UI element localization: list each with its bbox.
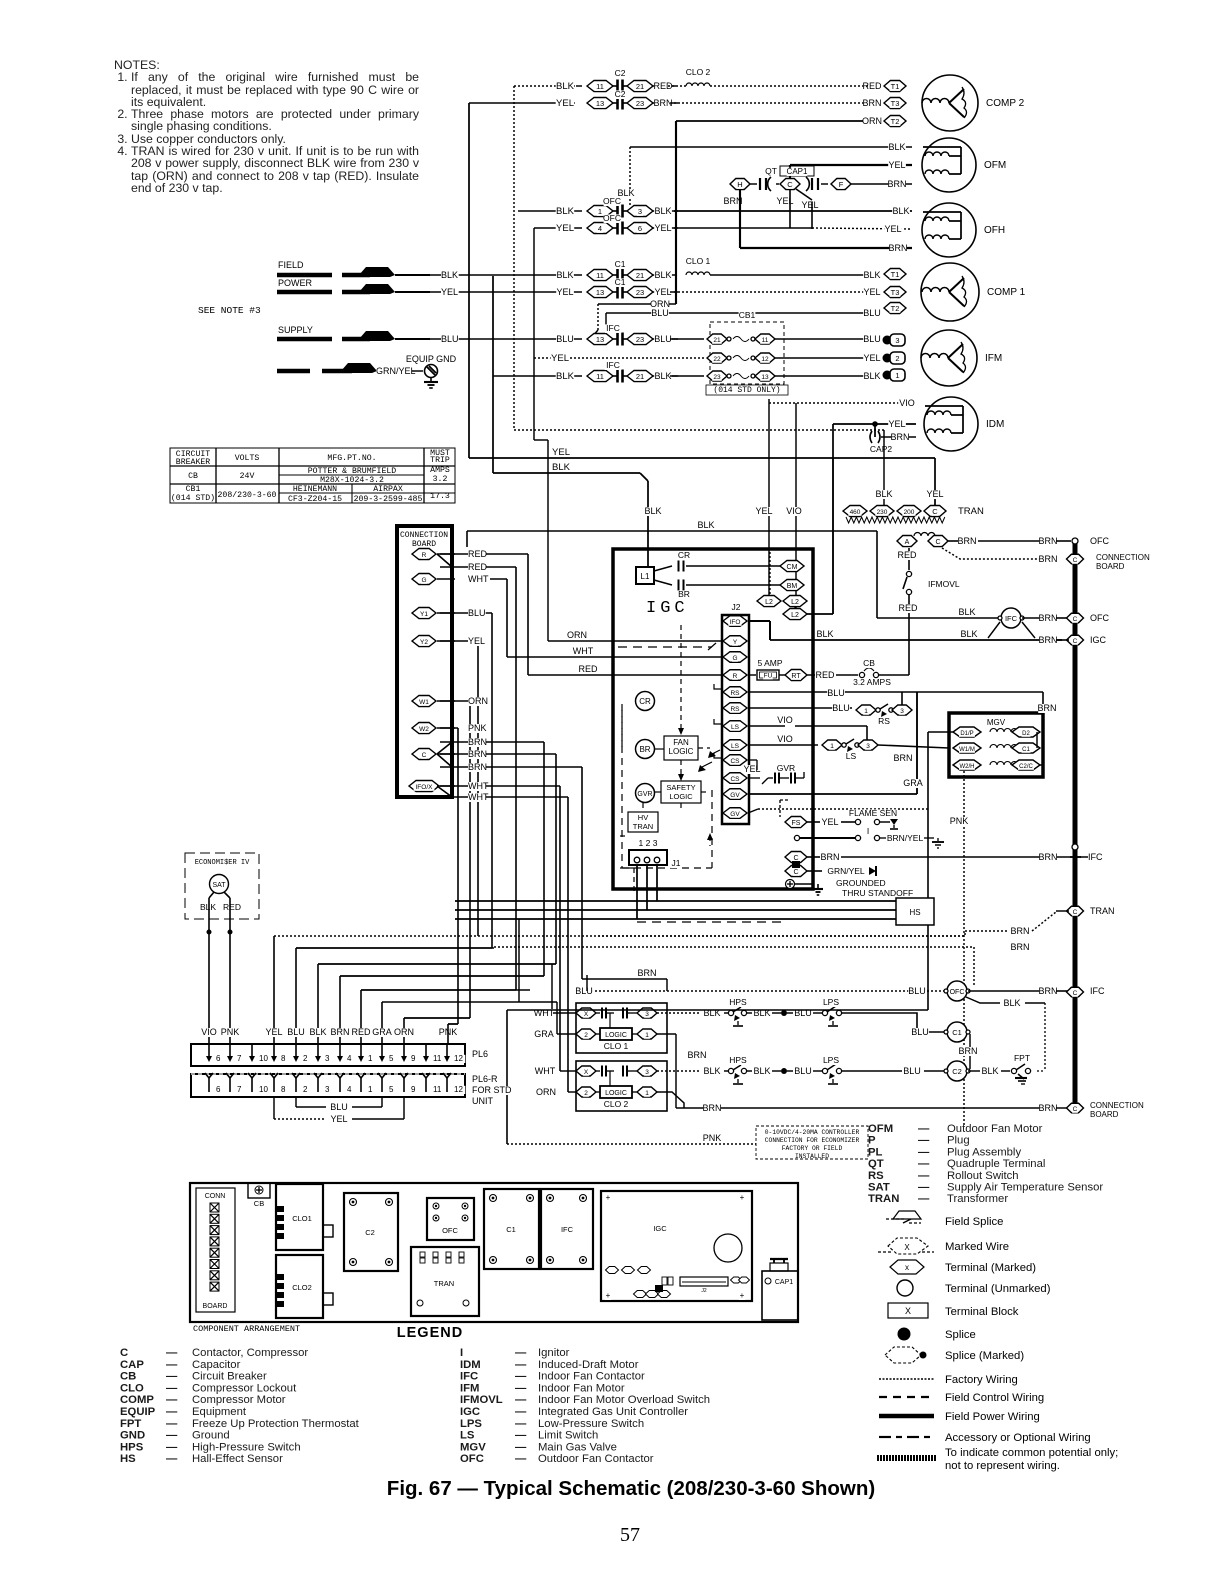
svg-text:—: — [166,1406,178,1418]
svg-text:13: 13 [596,99,604,108]
pin 1 PL6 [360,1044,362,1058]
svg-text:C: C [935,539,940,546]
wire J1 pin drops [636,865,638,919]
svg-text:IFC: IFC [460,1371,478,1383]
svg-text:—: — [918,1170,930,1182]
svg-text:CB: CB [120,1371,136,1383]
svg-text:AMPS: AMPS [430,466,450,475]
overload switch IFMOVL [908,548,910,570]
svg-text:OFM: OFM [984,160,1006,171]
svg-text:BRN: BRN [893,753,912,763]
svg-text:4: 4 [598,224,602,233]
svg-text:FIELD: FIELD [278,260,304,270]
svg-text:LOGIC: LOGIC [605,1090,627,1097]
pin 3 PL6 [317,1044,319,1058]
pin 7 PL6 [229,1044,231,1058]
svg-text:BRN: BRN [957,536,976,546]
svg-text:BRN: BRN [1038,613,1057,623]
svg-text:R: R [733,673,738,680]
contactor C1 contacts 13-23 [587,287,613,298]
wire VIO to IDM [769,402,912,404]
CLO 2 terminal X [576,1066,596,1076]
svg-text:CS: CS [730,776,740,783]
svg-text:23: 23 [636,99,644,108]
svg-text:CB1: CB1 [739,310,756,320]
svg-text:Field Power Wiring: Field Power Wiring [945,1411,1040,1423]
svg-text:GRN/YEL: GRN/YEL [827,866,865,876]
svg-text:BLK: BLK [1003,998,1020,1008]
contactor IFC contacts 13-23 [587,334,613,345]
terminal 2 IFM [883,354,892,363]
hall effect sensor HS [896,898,934,925]
C2 component [344,1193,398,1271]
svg-text:—: — [918,1158,930,1170]
svg-text:FLAME SEN: FLAME SEN [849,808,897,818]
wire BRN from H [724,197,742,206]
wire YEL vertical 534 [533,228,535,440]
svg-text:YEL: YEL [330,1114,347,1124]
svg-text:C2: C2 [952,1067,962,1076]
svg-text:TRAN: TRAN [868,1193,899,1205]
wire BLU from connection board [437,612,455,614]
low pressure switch LPS [813,1070,822,1072]
wire CLO1 output [657,1033,676,1035]
svg-text:C: C [120,1347,128,1359]
legend terminal unmarked symbol [897,1280,913,1296]
wire W2/H down [963,771,965,1126]
svg-text:BRN: BRN [1038,635,1057,645]
svg-text:VIO: VIO [777,715,793,725]
svg-text:WHT: WHT [535,1066,556,1076]
contactor IFC circle [877,617,1000,619]
svg-text:VIO: VIO [201,1027,217,1037]
main gas valve MGV box [949,713,1043,777]
wire BRN mgv riser [1042,692,1044,713]
wire BLU COMP1 T2 [606,312,866,314]
svg-text:G: G [421,577,426,584]
svg-text:FU: FU [764,673,773,680]
CLO 2 terminal 2 [576,1087,596,1097]
svg-text:TRAN: TRAN [1090,906,1115,916]
svg-text:W2: W2 [419,726,429,733]
svg-text:BRN: BRN [468,762,487,772]
svg-text:BLK: BLK [556,206,575,217]
svg-text:H: H [737,180,742,189]
pin 12 PL6 [446,1044,448,1058]
svg-text:Contactor, Compressor: Contactor, Compressor [192,1347,308,1359]
svg-text:4: 4 [347,1054,352,1063]
terminal Y2 connection board [412,636,436,647]
svg-text:D2: D2 [1022,731,1030,737]
svg-text:22: 22 [713,356,721,363]
svg-text:Main Gas Valve: Main Gas Valve [538,1441,617,1453]
svg-text:YEL: YEL [265,1027,282,1037]
terminal C connection board [1067,554,1084,564]
svg-text:YEL: YEL [743,764,760,774]
wire BLK down to IGC L1 [640,473,648,481]
svg-text:1: 1 [645,1032,649,1039]
wire BRN from connection board [437,742,452,754]
svg-text:BLK: BLK [556,81,575,92]
wire mgv internal [1036,732,1038,748]
svg-text:BLK: BLK [654,371,671,381]
compressor lockout CLO 1 box [576,1003,667,1053]
svg-text:11: 11 [433,1085,442,1094]
wire GV row [748,793,917,795]
svg-text:TRAN: TRAN [958,506,984,517]
notes text block [114,59,419,194]
svg-text:RED: RED [468,562,488,572]
breaker pole 23-13 [707,371,727,381]
svg-text:BLU: BLU [441,334,459,344]
svg-text:OFC: OFC [950,989,965,996]
wire route to lower connector [440,785,560,787]
terminal T1 COMP1 [884,269,906,280]
svg-text:YEL: YEL [755,506,772,516]
svg-text:Circuit Breaker: Circuit Breaker [192,1371,267,1383]
contactor C1 circle [947,1022,967,1042]
junction bus [1072,844,1078,850]
compressor lockout CLO 2 box [576,1061,667,1111]
ofc coil [897,536,917,547]
wire BLU row 948 [296,947,494,949]
svg-text:ORN: ORN [862,116,882,126]
flame sensor [841,821,855,823]
svg-text:RS: RS [878,716,890,726]
svg-text:BM: BM [787,583,798,590]
svg-text:3: 3 [325,1054,330,1063]
svg-text:BLK: BLK [958,607,975,617]
accessory dashed box [637,921,786,923]
wire BRN from connection board [437,754,452,767]
wire BLU jumper [295,1097,297,1107]
svg-text:(014 STD): (014 STD) [171,493,215,503]
svg-text:7: 7 [237,1085,242,1094]
svg-text:—: — [515,1453,527,1465]
svg-text:8: 8 [281,1085,286,1094]
capacitor CAP2 [874,424,876,437]
svg-text:IGC: IGC [646,599,689,618]
svg-text:C1: C1 [615,277,626,287]
terminal T3 COMP2 [884,98,906,109]
wire RED first row [440,553,528,555]
svg-text:CONN: CONN [205,1193,226,1200]
motor IFM [921,330,977,386]
breaker pole 21-11 [707,334,727,344]
svg-text:CLO 1: CLO 1 [604,1041,629,1051]
svg-text:2: 2 [584,1032,588,1039]
legend field splice symbol [893,1211,921,1219]
svg-text:—: — [166,1441,178,1453]
svg-text:IDM: IDM [986,419,1004,430]
svg-text:3: 3 [900,708,904,715]
svg-text:COMP 1: COMP 1 [987,287,1026,298]
svg-text:BOARD: BOARD [1096,562,1125,571]
IGC component [601,1191,752,1301]
svg-text:UNIT: UNIT [472,1096,493,1106]
svg-text:IGC: IGC [653,1224,667,1233]
svg-text:CLO1: CLO1 [292,1214,312,1223]
capacitor CAP1 [776,183,779,185]
legend common potential [877,1455,936,1461]
wire WHT from connection board [437,578,455,580]
wire BLK vertical dotted [513,86,515,430]
svg-text:MGV: MGV [460,1441,486,1453]
svg-text:Equipment: Equipment [192,1406,247,1418]
terminal T2 COMP2 [884,116,906,127]
svg-text:BRN: BRN [1038,852,1057,862]
contactor C2 circle [947,1061,967,1081]
wire ORN from connection board [437,700,455,702]
svg-text:BLU: BLU [468,608,486,618]
high pressure switch HPS [657,1012,700,1014]
svg-text:L1: L1 [641,572,650,581]
wire OFM BLK [630,146,912,148]
wire YEL bus IDM [832,424,834,458]
wire YEL row 936 [274,935,965,937]
svg-text:—: — [918,1123,930,1135]
economizer box [185,853,259,919]
svg-text:Fig. 67 — Typical Schematic (2: Fig. 67 — Typical Schematic (208/230-3-6… [387,1477,875,1500]
svg-text:BRN: BRN [1038,536,1057,546]
freeze protection thermostat FPT [968,1070,980,1072]
svg-text:—: — [166,1371,178,1383]
svg-text:9: 9 [411,1085,416,1094]
wire BLK row 473 [493,472,640,474]
relay contact BR [654,580,672,585]
svg-text:—: — [166,1359,178,1371]
svg-text:BLK: BLK [697,520,714,530]
svg-text:4: 4 [347,1085,352,1094]
wire LPS2 to C2 [842,1070,902,1072]
circuit breaker CB [248,1183,270,1198]
svg-text:+: + [740,1193,745,1202]
svg-text:C1: C1 [615,259,626,269]
svg-text:GVR: GVR [777,763,795,773]
svg-text:X: X [904,1243,910,1252]
dashed logic wiring [621,710,623,868]
pin 12 PL6-R [446,1078,448,1092]
terminal J2 G [723,652,747,663]
svg-text:3: 3 [645,1011,649,1018]
svg-text:BLK: BLK [753,1066,770,1076]
svg-text:OFH: OFH [984,225,1005,236]
CLO 2 logic box [600,1086,632,1098]
PL6 wire color labels [200,1028,218,1037]
wire dotted row 947 [973,947,975,985]
svg-text:CB: CB [863,658,875,668]
legend field control wiring [879,1396,934,1398]
svg-text:1: 1 [368,1054,373,1063]
legend field power wiring [879,1414,934,1419]
svg-text:BRN: BRN [637,968,656,978]
svg-text:RED: RED [578,664,598,674]
svg-text:C: C [787,180,793,189]
svg-text:CONNECTION: CONNECTION [1096,553,1150,562]
svg-text:HV: HV [638,813,648,822]
svg-text:23: 23 [636,335,644,344]
svg-text:CB: CB [254,1199,264,1208]
pin 11 PL6 [425,1044,427,1058]
svg-text:Splice: Splice [945,1329,976,1341]
svg-text:BRN/YEL: BRN/YEL [887,833,924,843]
wire dotted row to TRAN terminal [598,931,1008,936]
wire YEL tap [796,189,812,200]
svg-text:13: 13 [761,374,769,381]
wire BRN row 976 [340,975,544,977]
connection board box [397,526,452,797]
svg-text:C1: C1 [1022,747,1030,753]
svg-text:BRN: BRN [1010,926,1029,936]
svg-text:LPS: LPS [823,1055,839,1065]
svg-text:QT: QT [765,166,777,176]
svg-text:BLU: BLU [330,1102,348,1112]
svg-text:21: 21 [636,372,644,381]
svg-text:Indoor Fan Contactor: Indoor Fan Contactor [538,1371,645,1383]
pin 2 PL6-R [295,1078,297,1092]
svg-text:P: P [868,1135,876,1147]
wire PNK row 1024 [448,1023,458,1025]
contactor OFC contacts 4-6 [587,223,613,234]
terminal F [821,183,828,185]
svg-text:PNK: PNK [703,1133,722,1143]
svg-text:23: 23 [713,374,721,381]
svg-text:C: C [1073,616,1078,623]
wire GRA row 1010 [507,1009,928,1011]
connector J2 [722,615,749,824]
safety logic box [661,781,701,803]
svg-text:YEL: YEL [926,489,943,499]
svg-text:—: — [515,1347,527,1359]
contactor OFC contacts 1-3 [587,206,613,217]
wire ORN row to IGC Y [548,640,722,642]
wire OFH YEL [534,227,582,229]
fan logic box [664,736,698,760]
svg-text:RED: RED [897,550,917,560]
svg-text:BLK: BLK [441,270,458,280]
svg-text:FAN: FAN [673,738,689,747]
wire WHT to CLO2 [560,1070,576,1072]
svg-text:2: 2 [303,1054,308,1063]
pin 6 PL6 [208,1044,210,1058]
svg-text:C: C [1073,557,1078,564]
wire dotted row 947 [494,946,974,948]
terminal C BRN [785,852,807,863]
terminal J2 LS [723,740,747,751]
wire BLK down to TRAN [883,430,885,505]
svg-text:RS: RS [868,1170,884,1182]
svg-text:YEL: YEL [654,287,671,297]
bus break IFC [1070,852,1080,863]
svg-text:BLK: BLK [892,206,909,216]
svg-text:BRN: BRN [330,1027,349,1037]
wire LPS1 to C1 [842,1013,917,1032]
svg-text:W1: W1 [419,699,429,706]
contactor C2 contacts 11-21 [587,81,613,92]
svg-text:Indoor Fan Motor Overload Swit: Indoor Fan Motor Overload Switch [538,1394,710,1406]
wire BLK vertical [492,276,494,473]
svg-text:Ignitor: Ignitor [538,1347,570,1359]
svg-text:BR: BR [639,745,650,754]
svg-text:not to represent wiring.: not to represent wiring. [945,1460,1060,1472]
field splice GRN/YEL [277,369,310,374]
wire row 430 dotted [514,429,884,431]
connector PL6 [191,1044,465,1066]
svg-text:Plug Assembly: Plug Assembly [947,1146,1021,1158]
pin 1 PL6-R [360,1078,362,1092]
svg-text:BRN: BRN [1038,554,1057,564]
wire vertical BLK OFC [629,147,631,206]
svg-text:PNK: PNK [221,1027,240,1037]
svg-text:I: I [867,826,869,836]
svg-text:—: — [166,1394,178,1406]
svg-text:6: 6 [216,1085,221,1094]
limit switch LS [748,725,785,727]
svg-text:MGV: MGV [987,718,1006,727]
svg-text:10: 10 [259,1054,268,1063]
svg-text:HPS: HPS [729,1055,747,1065]
svg-text:BLK: BLK [703,1066,720,1076]
IFC component [541,1189,593,1269]
terminal C OFC [1067,613,1084,623]
wire BLU OFC row [587,990,946,992]
svg-text:C2: C2 [615,89,626,99]
svg-text:CAP2: CAP2 [870,444,892,454]
pin 2 PL6 [295,1044,297,1058]
svg-text:BOARD: BOARD [203,1303,228,1310]
svg-text:Capacitor: Capacitor [192,1359,241,1371]
svg-text:+: + [606,1291,611,1300]
svg-text:BRN: BRN [1010,942,1029,952]
svg-text:—: — [515,1371,527,1383]
svg-text:5: 5 [389,1054,394,1063]
svg-text:C: C [1073,1106,1078,1113]
svg-text:YEL: YEL [552,447,570,458]
svg-text:Outdoor Fan Contactor: Outdoor Fan Contactor [538,1453,654,1465]
pin 5 PL6 [381,1044,383,1058]
relay coil BR [636,740,655,759]
svg-text:C: C [793,869,798,876]
svg-text:SAFETY: SAFETY [666,783,695,792]
svg-text:IFO: IFO [730,619,741,626]
common potential bus [1073,541,1078,1110]
svg-text:11: 11 [596,82,604,91]
svg-text:—: — [515,1394,527,1406]
wire YEL down to TRAN [934,458,936,505]
svg-text:MFG.PT.NO.: MFG.PT.NO. [327,454,376,463]
svg-text:BLK: BLK [556,371,575,382]
capacitor CAP1 component [762,1271,798,1320]
svg-text:YEL: YEL [863,287,880,297]
wire YEL vertical from POWER [468,103,470,458]
svg-text:—: — [515,1430,527,1442]
svg-text:209-3-2599-485: 209-3-2599-485 [354,495,423,504]
svg-text:YEL: YEL [468,636,485,646]
svg-text:Terminal (Marked): Terminal (Marked) [945,1262,1036,1274]
terminal L1 [636,567,654,584]
terminal RT [779,674,785,676]
wire ORN row 1018 [404,1017,470,1019]
svg-text:LEGEND: LEGEND [397,1325,463,1341]
svg-text:12: 12 [761,356,769,363]
wire BLK from OFC [966,997,1000,1003]
svg-text:PL6-R: PL6-R [472,1074,498,1084]
terminal 1 IFM [883,371,892,380]
legend splice symbol [898,1328,911,1341]
svg-text:460: 460 [850,509,861,516]
svg-text:BLU: BLU [908,986,926,996]
svg-text:Field Control Wiring: Field Control Wiring [945,1392,1044,1404]
